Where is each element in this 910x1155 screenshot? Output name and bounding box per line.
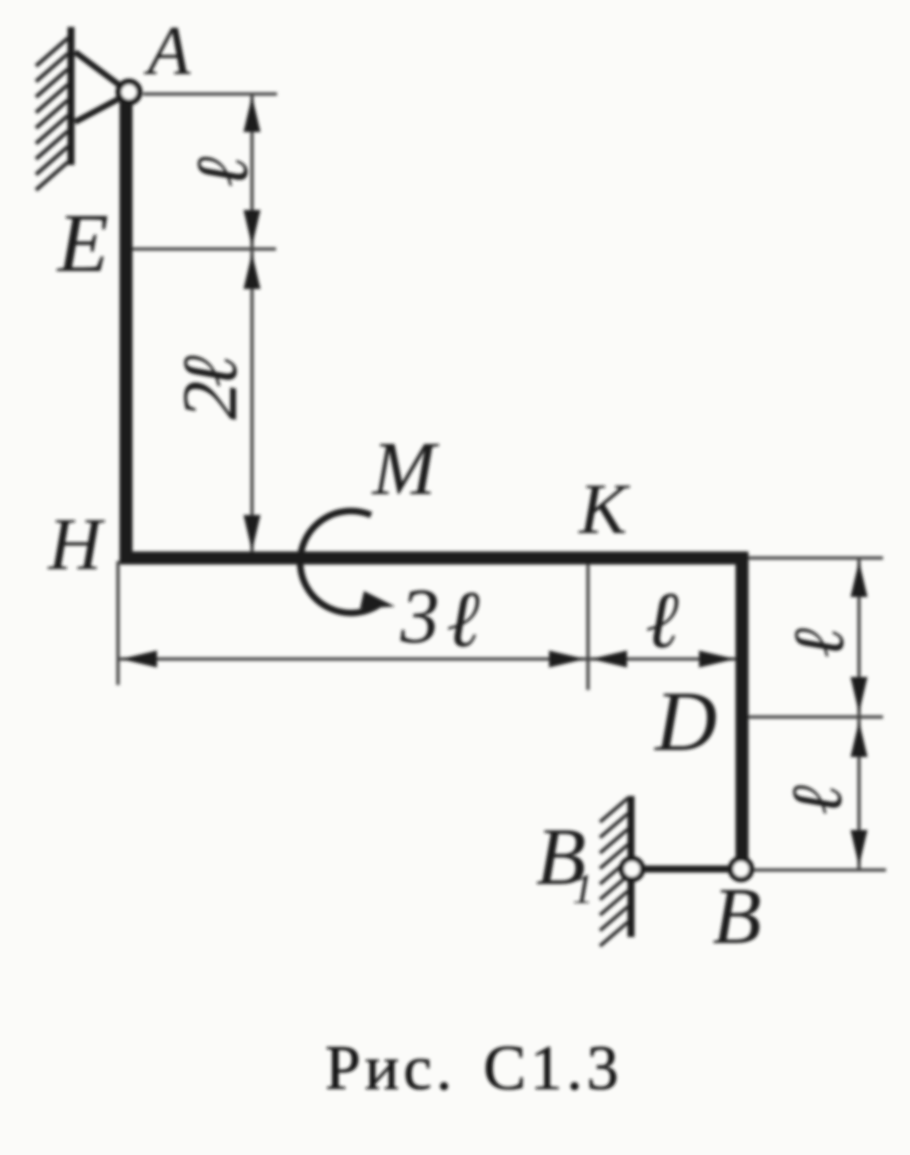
svg-text:K: K bbox=[578, 469, 631, 549]
svg-text:ℓ: ℓ bbox=[645, 577, 678, 665]
svg-text:M: M bbox=[371, 427, 439, 511]
svg-text:A: A bbox=[144, 13, 191, 90]
svg-text:ℓ: ℓ bbox=[182, 156, 264, 187]
svg-text:Рис. С1.3: Рис. С1.3 bbox=[325, 1032, 623, 1103]
svg-text:1: 1 bbox=[573, 867, 594, 913]
svg-text:3: 3 bbox=[400, 572, 440, 659]
svg-text:E: E bbox=[56, 197, 108, 290]
svg-text:ℓ: ℓ bbox=[777, 785, 857, 815]
svg-text:H: H bbox=[47, 504, 105, 586]
svg-text:D: D bbox=[654, 673, 717, 769]
svg-text:ℓ: ℓ bbox=[446, 576, 479, 664]
svg-text:2ℓ: 2ℓ bbox=[166, 355, 253, 420]
svg-text:ℓ: ℓ bbox=[779, 628, 859, 658]
svg-text:B: B bbox=[713, 873, 762, 961]
